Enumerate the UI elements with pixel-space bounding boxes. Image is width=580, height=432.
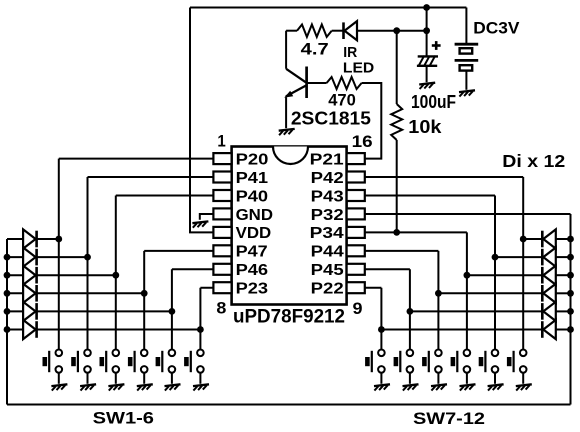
wire P47 horizontal to column 4 (144, 250, 213, 252)
wire key column 2 vertical (87, 177, 89, 350)
svg-text:P40: P40 (236, 188, 269, 205)
wire anode feed D6 (7, 329, 23, 331)
svg-text:2SC1815: 2SC1815 (291, 107, 371, 128)
switch SW10 pushbutton (451, 350, 471, 373)
wire cathode D9 row (467, 274, 542, 276)
wire P42 horizontal (365, 176, 523, 178)
switch SW8 pushbutton (394, 350, 414, 373)
wire P44 horizontal (365, 250, 439, 252)
svg-text:470: 470 (328, 91, 356, 110)
wire SW7 to ground (380, 373, 382, 384)
wire key column 11 vertical (494, 196, 496, 350)
wire key column 9 vertical (437, 251, 439, 350)
svg-text:P41: P41 (236, 170, 269, 187)
wire anode D11 to rail (556, 310, 571, 312)
wire cathode D10 row (438, 292, 542, 294)
wire P23 horizontal to column 6 (200, 287, 213, 289)
transistor Q1 2SC1815 (284, 67, 306, 99)
ground emitter Q1 (279, 129, 295, 135)
wire battery negative lead (465, 71, 467, 90)
wire cathode D4 to column dot (37, 292, 145, 294)
switch SW5 pushbutton (156, 350, 176, 373)
wire anode D7 to rail (556, 238, 571, 240)
ground SW4 (137, 384, 153, 390)
pin box 3 (P40) (213, 190, 231, 201)
ground battery (459, 90, 475, 96)
switch SW11 pushbutton (479, 350, 499, 373)
op-amp U1 body uPD78F9212 (IC outline) (232, 147, 347, 305)
node junction 10k top (393, 27, 400, 34)
node junction column 3 / row 3 (112, 272, 119, 279)
svg-text:P22: P22 (311, 281, 344, 298)
svg-text:P43: P43 (311, 188, 344, 205)
wire SW3 to ground (115, 373, 117, 384)
svg-text:LED: LED (343, 59, 374, 76)
ground SW2 (80, 384, 96, 390)
wire LED anode feed (357, 30, 427, 32)
diode D10 (542, 284, 556, 303)
wire SW6 to ground (199, 373, 201, 384)
svg-text:4.7: 4.7 (301, 40, 329, 59)
node junction right rail row 3 (567, 272, 574, 279)
diode D5 (23, 302, 36, 321)
svg-text:8: 8 (216, 299, 226, 318)
wire SW11 to ground (494, 373, 496, 384)
diode D7 (542, 229, 556, 248)
node junction column 4 / row 4 (141, 290, 148, 297)
ground SW5 (165, 384, 181, 390)
pin box 9 (P22) (347, 282, 365, 293)
wire P20 horizontal to column 1 (59, 158, 214, 160)
node junction column 10 / row 3 (464, 272, 471, 279)
switch SW4 pushbutton (128, 350, 148, 373)
wire anode D10 to rail (556, 292, 571, 294)
svg-text:Di x 12: Di x 12 (502, 151, 565, 171)
node junction 10k / P34 wire (393, 229, 400, 236)
switch SW1 pushbutton (43, 350, 63, 373)
node junction column 9 / row 4 (435, 290, 442, 297)
switch SW9 pushbutton (422, 350, 442, 373)
pin box 5 (VDD) (213, 227, 231, 238)
svg-text:GND: GND (236, 207, 273, 224)
switch SW6 pushbutton (184, 350, 204, 373)
svg-text:VDD: VDD (236, 225, 272, 242)
wire anode feed D5 (7, 310, 23, 312)
diode D3 (23, 266, 36, 285)
pin box 16 (P21) (347, 153, 365, 164)
pin box 11 (P44) (347, 245, 365, 256)
wire anode D9 to rail (556, 274, 571, 276)
wire SW1 to ground (58, 373, 60, 384)
svg-text:DC3V: DC3V (473, 18, 520, 37)
pin box 7 (P46) (213, 264, 231, 275)
svg-text:P44: P44 (311, 244, 344, 261)
svg-text:1: 1 (217, 133, 225, 151)
svg-text:P45: P45 (311, 262, 344, 279)
wire VDD drop to IC pin 5 (190, 8, 213, 233)
svg-text:SW1-6: SW1-6 (93, 409, 154, 428)
wire Q1 base to R2 (307, 82, 327, 84)
wire cathode D7 row (523, 238, 542, 240)
wire LED cathode to R1 (332, 30, 344, 32)
svg-text:P42: P42 (311, 170, 344, 187)
switch SW7 pushbutton (365, 350, 385, 373)
wire anode feed D2 (7, 256, 23, 258)
wire key column 6 vertical (199, 288, 201, 350)
wire SW10 to ground (466, 373, 468, 384)
svg-text:uPD78F9212: uPD78F9212 (233, 307, 345, 328)
node junction left rail row 5 (4, 308, 11, 315)
ground SW12 (516, 384, 532, 390)
resistor R2 470 (327, 77, 362, 89)
diode D9 (542, 266, 556, 285)
ground capacitor C1 (419, 83, 435, 89)
ground IC GND pin (192, 221, 208, 227)
wire key column 10 vertical (466, 232, 468, 349)
wire cathode D1 to column dot (37, 238, 59, 240)
diode D6 (23, 320, 36, 339)
pin box 15 (P42) (347, 172, 365, 183)
switch SW3 pushbutton (100, 350, 120, 373)
node junction right rail row 6 (567, 326, 574, 333)
node junction column 1 / row 1 (55, 236, 62, 243)
svg-text:16: 16 (352, 132, 373, 151)
node junction left rail row 4 (4, 290, 11, 297)
wire key column 3 vertical (115, 196, 117, 350)
svg-text:SW7-12: SW7-12 (413, 409, 485, 428)
pin box 13 (P32) (347, 208, 365, 219)
node junction left rail row 2 (4, 254, 11, 261)
diode D4 (23, 284, 36, 303)
svg-text:P34: P34 (310, 225, 344, 242)
ground SW6 (193, 384, 209, 390)
node junction column 2 / row 2 (84, 254, 91, 261)
diode D2 (23, 248, 36, 267)
pin box 14 (P43) (347, 190, 365, 201)
wire P34 horizontal (365, 231, 467, 233)
node junction right rail row 2 (567, 254, 574, 261)
wire P45 horizontal (365, 268, 410, 270)
wire anode feed D1 (7, 238, 23, 240)
wire SW8 to ground (409, 373, 411, 384)
svg-text:P47: P47 (236, 244, 268, 261)
battery BT1 DC3V coin cells (455, 44, 479, 70)
diode D12 (542, 320, 556, 339)
wire key column 5 vertical (171, 269, 173, 349)
wire 10k upper lead (396, 31, 398, 104)
ground SW10 (460, 384, 476, 390)
wire P43 horizontal (365, 195, 495, 197)
wire key column 7 vertical (380, 288, 382, 350)
node junction top rail / C1 branch (423, 4, 430, 11)
wire cathode D6 to column dot (37, 329, 201, 331)
ground SW1 (51, 384, 67, 390)
node junction column 12 / row 1 (520, 236, 527, 243)
node junction R1-LED wire / C1 (423, 27, 430, 34)
pin box 10 (P45) (347, 264, 365, 275)
wire R1 to Q1 collector corner (286, 30, 297, 32)
diode D1 (23, 229, 36, 248)
wire SW2 to ground (87, 373, 89, 384)
wire diode common rail bottom (7, 404, 571, 406)
ground SW3 (108, 384, 124, 390)
wire key column 8 vertical (409, 269, 411, 349)
wire SW5 to ground (171, 373, 173, 384)
wire key column 1 vertical (58, 159, 60, 350)
node junction column 11 / row 2 (492, 254, 499, 261)
pin box 12 (P34) (347, 227, 365, 238)
wire battery positive lead (465, 8, 467, 45)
node junction right rail row 5 (567, 308, 574, 315)
ground SW9 (431, 384, 447, 390)
node junction column 6 / row 6 (197, 326, 204, 333)
wire cathode D2 to column dot (37, 256, 88, 258)
svg-text:P46: P46 (236, 262, 269, 279)
pin box 1 (P20) (213, 153, 231, 164)
LED D13 IR LED (344, 21, 358, 40)
svg-text:9: 9 (353, 299, 363, 318)
wire cathode D3 to column dot (37, 274, 116, 276)
wire C1 negative lead (426, 66, 428, 82)
wire P41 horizontal to column 2 (88, 176, 214, 178)
resistor R3 10k (391, 104, 402, 140)
wire Q1 emitter to ground (285, 97, 287, 128)
ground SW11 (488, 384, 504, 390)
diode D8 (542, 248, 556, 267)
svg-text:10k: 10k (408, 117, 442, 137)
wire GND pin 4 stub (200, 214, 214, 220)
wire diode common rail right (570, 214, 572, 405)
node junction column 5 / row 5 (169, 308, 176, 315)
capacitor C1 100uF electrolytic (417, 56, 438, 67)
svg-text:100uF: 100uF (411, 91, 456, 112)
wire anode feed D3 (7, 274, 23, 276)
wire cathode D12 row (381, 329, 542, 331)
wire LED branch from supply (426, 8, 428, 57)
wire SW12 to ground (522, 373, 524, 384)
wire P46 horizontal to column 5 (172, 268, 214, 270)
pin box 4 (GND) (213, 208, 231, 219)
wire anode D8 to rail (556, 256, 571, 258)
node junction right rail row 1 (567, 236, 574, 243)
wire P32 to right rail (365, 213, 571, 215)
node junction left rail row 6 (4, 326, 11, 333)
wire P22 horizontal (365, 287, 382, 289)
wire diode common rail left (6, 239, 8, 405)
switch SW2 pushbutton (71, 350, 91, 373)
wire cathode D8 row (495, 256, 542, 258)
node junction right rail row 4 (567, 290, 574, 297)
wire anode D12 to rail (556, 329, 571, 331)
pin box 6 (P47) (213, 245, 231, 256)
wire 10k lower lead to P34 net (396, 140, 398, 232)
resistor R1 4.7 (297, 25, 332, 37)
ground SW7 (374, 384, 390, 390)
wire R2 to pin 16 (362, 83, 382, 159)
wire SW9 to ground (437, 373, 439, 384)
wire P40 horizontal to column 3 (116, 195, 214, 197)
wire cathode D5 to column dot (37, 310, 172, 312)
node junction column 7 / row 6 (378, 326, 385, 333)
diode D11 (542, 302, 556, 321)
svg-text:P21: P21 (310, 151, 344, 168)
wire key column 12 vertical (522, 177, 524, 350)
wire cathode D11 row (410, 310, 542, 312)
wire key column 4 vertical (143, 251, 145, 350)
node junction left rail row 3 (4, 272, 11, 279)
pin box 8 (P23) (213, 282, 231, 293)
switch SW12 pushbutton (507, 350, 527, 373)
wire Q1 collector vertical (285, 31, 287, 69)
svg-text:P20: P20 (236, 151, 269, 168)
pin box 2 (P41) (213, 172, 231, 183)
label + polarity of C1 (432, 41, 441, 50)
wire VDD supply rail (top) (190, 7, 466, 9)
wire anode feed D4 (7, 292, 23, 294)
ground SW8 (403, 384, 419, 390)
node junction column 8 / row 5 (407, 308, 414, 315)
wire SW4 to ground (143, 373, 145, 384)
svg-text:P23: P23 (236, 281, 269, 298)
svg-text:P32: P32 (311, 207, 344, 224)
